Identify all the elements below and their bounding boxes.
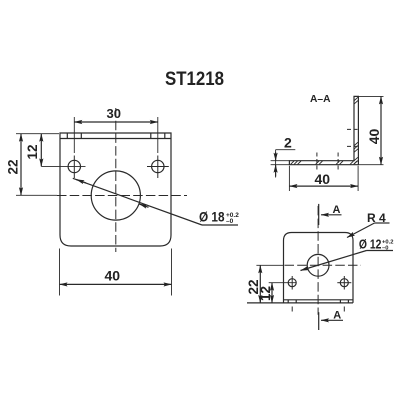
front view: left hole cross [73, 156, 75, 179]
dim 12 (front) [41, 165, 85, 167]
section: hatch horizontal leg [291, 161, 358, 164]
top view: horizontal centerline [285, 264, 362, 266]
top view: right hole cross [343, 276, 345, 290]
svg-text:2: 2 [284, 135, 292, 151]
top view: central hole D12 [307, 254, 329, 276]
leader R4 [375, 222, 390, 224]
svg-text:–0: –0 [382, 245, 388, 251]
section: L profile outline [289, 96, 358, 164]
top view: small hole right [340, 279, 348, 287]
section: hole centerline stubs in vertical leg [347, 128, 360, 130]
front view: small hole right [152, 160, 164, 172]
svg-text:40: 40 [315, 171, 331, 187]
front view: small hole left [68, 160, 80, 172]
top view: bottom edge / extension line [247, 302, 353, 304]
front view: right hole cross [157, 156, 159, 179]
dim 40 (section, vertical) [354, 95, 384, 97]
svg-text:–0: –0 [226, 218, 234, 225]
top view: plate outline [284, 233, 354, 303]
dim 40 (section, bottom) [288, 166, 290, 191]
top view: small hole left [288, 279, 296, 287]
svg-text:40: 40 [366, 129, 382, 145]
front view: flange hole ticks [66, 133, 68, 139]
svg-text:40: 40 [105, 268, 121, 284]
top view: hole stubs below [291, 307, 293, 312]
svg-text:12: 12 [25, 144, 40, 159]
svg-text:A–A: A–A [310, 94, 331, 105]
section: hole centerline stubs in horizontal leg [316, 153, 318, 172]
section mark A (bottom) [318, 312, 320, 330]
section: hatch vertical leg [354, 97, 358, 164]
svg-text:A: A [333, 310, 341, 322]
leader D18 [202, 224, 238, 226]
front view: bend line of top flange [60, 138, 171, 140]
top view: vertical centerline [317, 206, 319, 315]
front view: bracket plate outline [60, 133, 171, 246]
section mark A (top) [318, 204, 320, 225]
top view: bend line of flange [284, 299, 354, 301]
svg-text:ST1218: ST1218 [165, 69, 224, 90]
svg-text:30: 30 [107, 106, 121, 121]
svg-text:Ø 12: Ø 12 [359, 237, 382, 252]
dim 40 (front, bottom) [59, 249, 61, 296]
dim 2 (thickness) [271, 160, 290, 162]
svg-text:Ø 18: Ø 18 [199, 210, 225, 225]
front view: big hole D18 [91, 171, 140, 220]
dim 22 (top view) [256, 264, 284, 266]
svg-text:R 4: R 4 [367, 211, 386, 225]
svg-text:12: 12 [258, 286, 273, 301]
leader D12 [367, 250, 394, 252]
dim 12 (top view) [269, 282, 297, 284]
svg-text:22: 22 [6, 159, 21, 174]
dim 22 (front) [16, 133, 59, 135]
svg-text:A: A [333, 204, 341, 216]
top view: flange hole ticks [287, 300, 289, 303]
top view: left hole cross [291, 276, 293, 290]
dim 30 [73, 117, 75, 153]
front view: vertical centerline [115, 108, 117, 252]
front view: horizontal centerline of big hole [57, 195, 187, 197]
